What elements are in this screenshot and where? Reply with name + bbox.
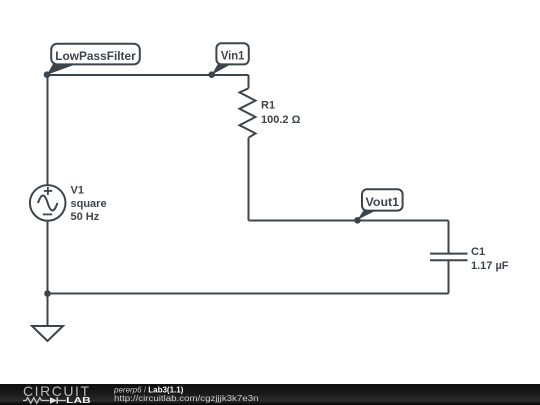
wire middle net (Vout1) bbox=[249, 220, 449, 222]
wire R1 top lead bbox=[248, 75, 250, 88]
svg-text:C1: C1 bbox=[471, 246, 485, 258]
node dot Vout1 bbox=[354, 217, 361, 224]
wire C1 bottom lead bbox=[448, 260, 450, 293]
svg-text:http://circuitlab.com/cgzjjjk3: http://circuitlab.com/cgzjjjk3k7e3n bbox=[114, 394, 259, 403]
svg-text:100.2 Ω: 100.2 Ω bbox=[261, 114, 301, 126]
label tail Vout1 bbox=[358, 208, 382, 220]
svg-text:square: square bbox=[71, 198, 107, 210]
wire R1 bottom lead bbox=[248, 138, 250, 221]
label tail LowPassFilter bbox=[47, 62, 82, 75]
label box LowPassFilter bbox=[51, 44, 140, 65]
node dot Vin1 bbox=[208, 71, 215, 78]
svg-text:V1: V1 bbox=[71, 185, 84, 197]
wire ground stem bbox=[47, 294, 49, 327]
footer bar bbox=[0, 384, 540, 405]
svg-text:pererp6 / Lab3(1.1): pererp6 / Lab3(1.1) bbox=[113, 385, 184, 394]
logo squiggle resistor bbox=[23, 398, 50, 404]
wire left vertical V1 branch bbox=[47, 75, 49, 294]
node dot ground junction bbox=[44, 290, 51, 297]
svg-text:LowPassFilter: LowPassFilter bbox=[55, 49, 136, 63]
logo diode bbox=[50, 397, 57, 403]
ground bbox=[32, 326, 63, 341]
label box Vout1 bbox=[362, 189, 403, 210]
resistor R1 bbox=[240, 88, 256, 137]
svg-text:LAB: LAB bbox=[66, 396, 91, 405]
svg-text:50 Hz: 50 Hz bbox=[71, 211, 100, 223]
voltage source V1 bbox=[30, 185, 66, 221]
node dot LowPassFilter bbox=[44, 71, 51, 78]
capacitor C1 bbox=[430, 254, 468, 261]
svg-text:R1: R1 bbox=[261, 100, 275, 112]
svg-text:1.17 µF: 1.17 µF bbox=[471, 260, 509, 272]
label box Vin1 bbox=[216, 43, 248, 64]
wire top net (LowPassFilter/Vin1) bbox=[48, 74, 249, 76]
wire C1 top lead bbox=[448, 221, 450, 254]
svg-text:Vin1: Vin1 bbox=[221, 49, 245, 63]
wire bottom net bbox=[48, 293, 449, 295]
label tail Vin1 bbox=[212, 62, 235, 75]
svg-text:Vout1: Vout1 bbox=[366, 195, 400, 209]
